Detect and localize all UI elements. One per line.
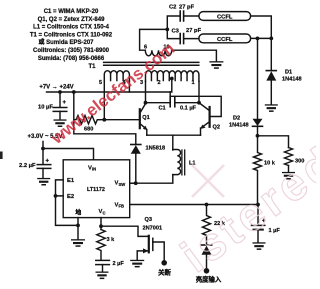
wire: +7V rail bbox=[47, 79, 172, 93]
wire: secondary right to ground bbox=[172, 50, 217, 61]
svg-text:LT1172: LT1172 bbox=[87, 187, 105, 193]
wire: Q1 emitter to rail bbox=[146, 130, 148, 135]
svg-text:L1 = Coiltronics CTX 150-4: L1 = Coiltronics CTX 150-4 bbox=[33, 25, 110, 31]
svg-text:E2: E2 bbox=[67, 194, 74, 200]
resistor 22k bbox=[203, 205, 211, 245]
diode 1N5818 bbox=[131, 144, 141, 146]
wire: C2 to CCFL1 bbox=[184, 15, 199, 17]
CCFL lamp 2 bbox=[199, 34, 251, 43]
diode brightness bbox=[201, 244, 211, 246]
wire: to D1 bbox=[270, 38, 272, 70]
wire: 3V rail to VIN bbox=[43, 142, 94, 160]
node dots on rail bbox=[58, 90, 62, 94]
wire: Q3 source to ground bbox=[137, 251, 148, 260]
svg-text:D1: D1 bbox=[285, 70, 292, 76]
capacitor C3 27pF bbox=[180, 34, 183, 44]
T1 primary winding A pins 5-4 bbox=[104, 71, 129, 82]
svg-text:1N5818: 1N5818 bbox=[146, 146, 166, 152]
ground under 10uF bbox=[54, 119, 67, 127]
node: C2/C3 split bbox=[165, 28, 169, 32]
svg-text:2: 2 bbox=[158, 80, 161, 86]
resistor 3k bbox=[97, 230, 105, 261]
svg-text:关断: 关断 bbox=[158, 267, 171, 276]
ground under 300 bbox=[282, 172, 295, 180]
svg-text:3 k: 3 k bbox=[107, 237, 116, 243]
wire: node up and right to C2 bbox=[167, 16, 179, 29]
wire: C1 row right bbox=[175, 102, 199, 104]
scan artifact left edge bbox=[0, 152, 3, 160]
wire: pin4 riser bbox=[128, 81, 130, 92]
svg-text:T1: T1 bbox=[88, 64, 96, 70]
svg-text:CCFL: CCFL bbox=[217, 15, 233, 21]
ground under 2.2uF bbox=[37, 178, 50, 186]
resistor 300 bbox=[285, 148, 293, 166]
T1 secondary winding pins 6-10 bbox=[145, 50, 171, 56]
wire: VSW pin bbox=[130, 182, 136, 184]
wire: base row to Q1 bbox=[100, 119, 139, 121]
capacitor C1 0.1uF bbox=[170, 97, 175, 107]
svg-text:E1: E1 bbox=[67, 178, 75, 184]
T1 primary winding B pins 3-2-1 bbox=[146, 71, 199, 82]
svg-text:5: 5 bbox=[99, 80, 102, 86]
svg-text:Q1: Q1 bbox=[142, 115, 149, 121]
resistor 10k bbox=[254, 136, 262, 205]
wire: VFB line bbox=[130, 204, 258, 206]
svg-text:SW: SW bbox=[119, 182, 126, 187]
svg-text:680: 680 bbox=[84, 126, 93, 132]
svg-text:Q3: Q3 bbox=[145, 217, 152, 223]
svg-text:0.1 µF: 0.1 µF bbox=[180, 106, 197, 112]
ground under 1uF bbox=[253, 242, 266, 250]
inductor L1 bbox=[173, 150, 181, 175]
shutdown terminal bbox=[161, 260, 167, 266]
pin number labels bbox=[99, 45, 195, 86]
wire: C3 to CCFL2 bbox=[184, 38, 199, 40]
svg-text:CCFL: CCFL bbox=[217, 37, 233, 43]
svg-text:D2: D2 bbox=[233, 116, 240, 122]
wire: pin1 drop to Q2 collector bbox=[198, 81, 200, 102]
wire: E1 E2 connections bbox=[56, 180, 79, 226]
wire: VC to Q3 drain bbox=[101, 226, 148, 236]
wire: Q2 emitter to rail bbox=[200, 128, 202, 135]
wire: C1 row left bbox=[146, 102, 170, 104]
wire: 680 riser and feed to 1N5818 bbox=[74, 92, 136, 144]
svg-text:27 pF: 27 pF bbox=[186, 28, 202, 34]
svg-text:或 Sumida EPS-207: 或 Sumida EPS-207 bbox=[38, 38, 94, 46]
svg-text:27 pF: 27 pF bbox=[179, 5, 195, 11]
svg-text:2 µF: 2 µF bbox=[113, 261, 125, 267]
transistor Q1 bbox=[139, 109, 141, 128]
ground under Q3 bbox=[130, 260, 144, 268]
diode D1 1N4148 bbox=[266, 70, 276, 72]
svg-text:+: + bbox=[46, 158, 50, 164]
wire: pin 5 drop bbox=[103, 81, 105, 119]
svg-text:C3: C3 bbox=[172, 29, 180, 35]
wire: to D2 bbox=[257, 38, 259, 118]
resistor 680 bbox=[74, 116, 100, 124]
wire: VFB node to 1uF bbox=[257, 205, 259, 226]
svg-text:C1 = WIMA MKP-20: C1 = WIMA MKP-20 bbox=[44, 9, 99, 15]
svg-text:地: 地 bbox=[75, 209, 81, 217]
svg-text:C2: C2 bbox=[169, 5, 176, 11]
capacitor C2 27pF bbox=[180, 11, 183, 21]
svg-text:Sumida: (708) 956-0666: Sumida: (708) 956-0666 bbox=[38, 56, 105, 62]
wire: GND pin bbox=[77, 218, 79, 226]
svg-text:+: + bbox=[63, 100, 67, 106]
ground secondary bbox=[209, 61, 223, 69]
wire: VC pin down bbox=[100, 218, 102, 230]
capacitor 10uF bbox=[59, 92, 61, 107]
brightness input terminal bbox=[204, 268, 210, 274]
capacitor 2uF bbox=[96, 259, 110, 261]
node: Q2 collector bbox=[197, 101, 201, 105]
wire: CCFL2 right return bbox=[251, 37, 272, 39]
svg-text:Q2: Q2 bbox=[213, 125, 220, 131]
svg-text:10 µF: 10 µF bbox=[38, 105, 53, 111]
svg-text:IN: IN bbox=[92, 167, 96, 172]
svg-text:Q1, Q2 = Zetex ZTX-849: Q1, Q2 = Zetex ZTX-849 bbox=[38, 17, 106, 23]
wire: secondary left end up to C2/C3 node bbox=[140, 29, 168, 50]
wire: junction to 300 ohm branch bbox=[258, 136, 289, 148]
CCFL lamp 1 bbox=[199, 12, 251, 21]
svg-text:FB: FB bbox=[119, 204, 125, 209]
svg-text:C: C bbox=[103, 211, 106, 216]
wire: Q2 base drive loop bbox=[170, 92, 221, 117]
node: Q1 collector bbox=[144, 101, 148, 105]
svg-text:1: 1 bbox=[192, 80, 195, 86]
svg-text:T1 = Coiltronics CTX 110-092: T1 = Coiltronics CTX 110-092 bbox=[30, 32, 113, 38]
svg-text:2.2 µF: 2.2 µF bbox=[19, 163, 36, 169]
node: D2 bottom junction bbox=[256, 134, 260, 138]
ground under D1 bbox=[265, 104, 278, 112]
transistor Q2 bbox=[209, 107, 211, 127]
wire: CCFL1 right return bbox=[251, 16, 272, 38]
svg-text:2N7001: 2N7001 bbox=[143, 226, 163, 232]
wire: rail to L1 bbox=[172, 135, 174, 150]
wire: emitter rail bbox=[147, 134, 201, 136]
wire: Q3 gate to terminal bbox=[153, 242, 164, 260]
svg-text:C1: C1 bbox=[159, 106, 166, 112]
svg-text:+7V → +24V: +7V → +24V bbox=[39, 84, 73, 90]
transformer T1 core bbox=[104, 62, 199, 65]
svg-text:Coiltronics: (305) 781-8900: Coiltronics: (305) 781-8900 bbox=[33, 48, 110, 54]
ground under IC bbox=[71, 239, 85, 247]
capacitor 2.2uF bbox=[42, 149, 44, 165]
ground under 2uF bbox=[96, 272, 109, 280]
wire: node down and right to C3 bbox=[167, 29, 179, 38]
svg-text:1N4148: 1N4148 bbox=[229, 123, 249, 129]
op-amp U1 LT1172 box bbox=[63, 160, 130, 218]
svg-text:istered: istered bbox=[171, 135, 316, 282]
svg-text:1N4148: 1N4148 bbox=[282, 77, 302, 83]
diode D2 1N4148 bbox=[253, 119, 263, 126]
wire: L1 bottom to VSW bbox=[130, 150, 173, 184]
wire: pin3 drop to Q1 collector bbox=[145, 81, 147, 102]
node: VSW junction bbox=[134, 181, 138, 185]
node: pin5 base junction bbox=[102, 118, 106, 122]
node: tap pin 2 junction dot bbox=[170, 77, 174, 81]
parts list text block bbox=[30, 9, 113, 62]
node dots lamp return bbox=[256, 37, 260, 41]
